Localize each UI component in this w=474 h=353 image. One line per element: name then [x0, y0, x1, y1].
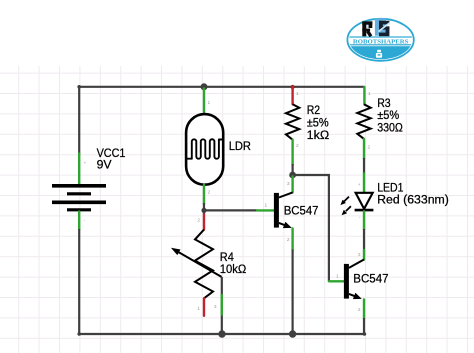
- junction top-left corner: [77, 85, 81, 89]
- logo RobotShapers: [347, 18, 415, 62]
- label LDR: [229, 139, 251, 153]
- node R2 top (red): [291, 85, 295, 89]
- resistor R4 (rheostat): [171, 215, 222, 316]
- svg-text:1: 1: [197, 306, 200, 312]
- svg-text:BC547: BC547: [353, 272, 388, 286]
- label BC547 (Q1): [284, 204, 319, 218]
- svg-text:Red (633nm): Red (633nm): [377, 193, 449, 207]
- svg-text:3: 3: [214, 304, 217, 310]
- svg-text:2: 2: [358, 307, 361, 313]
- wire base node to Q1 base: [204, 209, 257, 211]
- svg-text:2: 2: [296, 143, 299, 149]
- wire R4 wiper to bottom rail: [221, 277, 223, 334]
- wire R2 bottom to junction: [292, 164, 294, 175]
- svg-text:1kΩ: 1kΩ: [307, 128, 330, 142]
- label LED1 Red (633nm): [377, 180, 449, 206]
- wire battery negative to bottom rail: [78, 229, 80, 334]
- svg-text:1: 1: [336, 273, 339, 279]
- svg-text:+: +: [84, 162, 87, 167]
- wire Q2 emitter to bottom rail: [363, 318, 365, 334]
- svg-text:1: 1: [368, 91, 371, 97]
- svg-text:2: 2: [368, 145, 371, 151]
- junction bottom-right corner: [363, 332, 367, 336]
- label R4 10kΩ: [220, 250, 247, 276]
- wire Q1 emitter to bottom rail: [292, 250, 294, 335]
- svg-text:ROBOTSHAPERS: ROBOTSHAPERS: [353, 39, 409, 45]
- svg-text:BC547: BC547: [284, 204, 319, 218]
- svg-text:10kΩ: 10kΩ: [220, 262, 247, 276]
- svg-text:+: +: [358, 183, 361, 188]
- junction Q1 emitter / bottom rail: [289, 330, 296, 337]
- svg-text:9V: 9V: [97, 158, 113, 172]
- svg-text:LDR: LDR: [229, 139, 251, 153]
- junction R2 / Q1 collector node: [289, 172, 296, 179]
- wire battery positive riser: [78, 86, 80, 155]
- junction node LDR top: [201, 83, 208, 90]
- wire top rail: [79, 86, 364, 88]
- resistor R3: [357, 87, 371, 159]
- junction R4 wiper / bottom rail: [218, 330, 225, 337]
- resistor R2: [286, 87, 299, 165]
- photoresistor LDR: [186, 89, 223, 204]
- wire LDR bottom to base node: [203, 203, 205, 215]
- wire R3 to LED1: [363, 158, 365, 174]
- svg-text:1: 1: [296, 91, 299, 97]
- svg-text:2: 2: [197, 218, 200, 224]
- wire junction to Q2 base (L-shape): [293, 175, 329, 281]
- wire LED1 to Q2 collector: [363, 229, 365, 251]
- label R3 ±5% 330Ω: [377, 96, 403, 135]
- svg-text:2: 2: [208, 190, 211, 196]
- label R2 ±5% 1kΩ: [307, 103, 330, 142]
- LED LED1: [340, 173, 373, 229]
- battery VCC1: [52, 154, 106, 230]
- transistor Q2 BC547: [329, 250, 364, 319]
- svg-text:1: 1: [208, 100, 211, 106]
- label BC547 (Q2): [353, 272, 388, 286]
- wire bottom rail: [79, 333, 364, 335]
- junction bottom-left corner: [77, 332, 81, 336]
- svg-text:2: 2: [287, 237, 290, 243]
- svg-text:3: 3: [358, 252, 361, 258]
- svg-text:3: 3: [287, 181, 290, 187]
- transistor Q1 BC547: [257, 177, 293, 251]
- junction base node: [201, 208, 206, 213]
- svg-text:1: 1: [265, 203, 268, 209]
- svg-text:330Ω: 330Ω: [377, 121, 403, 135]
- label VCC1 9V: [97, 146, 126, 172]
